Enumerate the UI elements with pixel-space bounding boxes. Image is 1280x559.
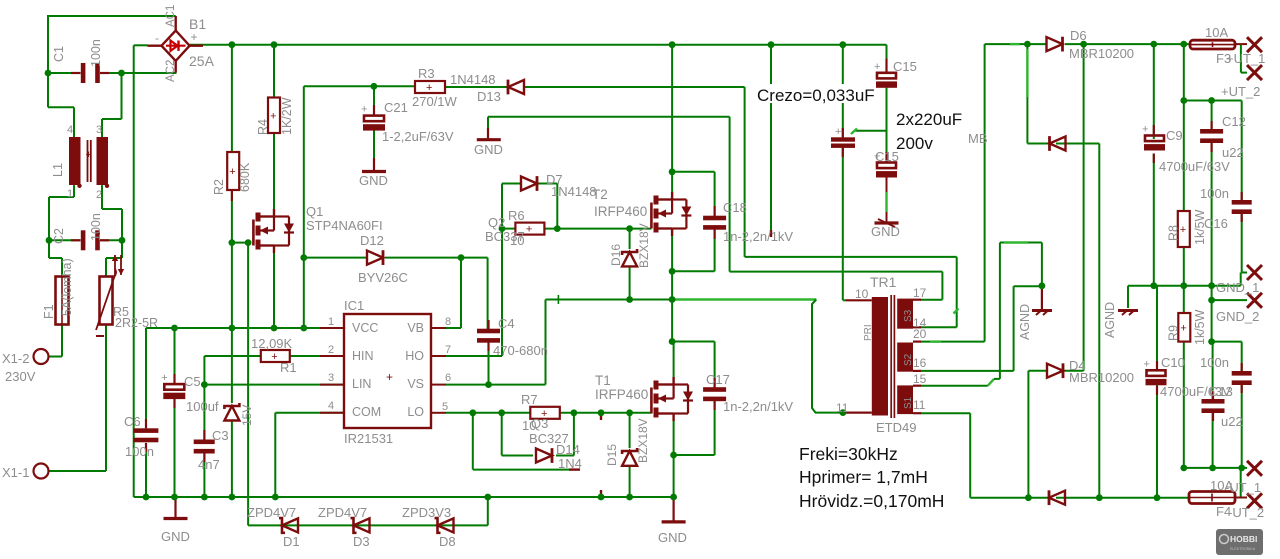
svg-text:+: + <box>1144 358 1150 370</box>
svg-text:S2: S2 <box>903 353 914 366</box>
svg-text:VCC: VCC <box>352 321 378 335</box>
svg-text:BZX18V: BZX18V <box>637 223 651 268</box>
svg-text:10: 10 <box>855 287 869 301</box>
svg-text:+: + <box>229 166 235 178</box>
svg-text:2: 2 <box>96 189 102 201</box>
svg-text:IR21531: IR21531 <box>344 431 393 446</box>
svg-text:Q1: Q1 <box>306 204 323 219</box>
svg-text:ZPD4V7: ZPD4V7 <box>247 505 296 520</box>
svg-text:R6: R6 <box>508 208 525 223</box>
svg-text:+: + <box>270 110 276 122</box>
svg-text:HO: HO <box>405 349 424 363</box>
svg-text:+: + <box>426 82 432 94</box>
svg-text:4n7: 4n7 <box>198 457 220 472</box>
svg-text:100n: 100n <box>1200 355 1229 370</box>
svg-text:+: + <box>1142 124 1148 136</box>
svg-text:2R2-5R: 2R2-5R <box>115 316 158 330</box>
svg-text:+: + <box>361 104 367 116</box>
svg-text:MB: MB <box>968 131 988 146</box>
svg-text:F1: F1 <box>42 304 56 319</box>
svg-text:-UT_1: -UT_1 <box>1225 480 1261 495</box>
svg-text:R4: R4 <box>256 119 270 135</box>
svg-text:D16: D16 <box>609 244 623 266</box>
svg-text:GND: GND <box>871 224 900 239</box>
svg-text:Crezo=0,033uF: Crezo=0,033uF <box>757 86 875 105</box>
svg-text:C15: C15 <box>893 59 917 74</box>
svg-text:+: + <box>271 351 277 363</box>
svg-text:100n: 100n <box>125 444 154 459</box>
svg-text:+: + <box>526 224 532 236</box>
svg-text:GND_2: GND_2 <box>1216 309 1259 324</box>
svg-text:1N4148: 1N4148 <box>551 184 597 199</box>
svg-text:15V: 15V <box>240 405 254 426</box>
svg-text:R3: R3 <box>418 66 435 81</box>
svg-text:4: 4 <box>328 400 334 412</box>
svg-text:1N4148: 1N4148 <box>450 72 496 87</box>
svg-text:680K: 680K <box>238 162 252 192</box>
svg-text:ZPD4V7: ZPD4V7 <box>318 505 367 520</box>
svg-text:C2: C2 <box>52 228 66 244</box>
svg-text:C3: C3 <box>212 428 229 443</box>
svg-text:D8: D8 <box>439 534 456 549</box>
svg-text:MBR10200: MBR10200 <box>1069 46 1134 61</box>
svg-text:BZX18V: BZX18V <box>636 418 650 463</box>
svg-text:Q3: Q3 <box>531 416 548 431</box>
svg-text:ZPD3V3: ZPD3V3 <box>402 505 451 520</box>
svg-text:TR1: TR1 <box>870 274 897 290</box>
svg-text:L1: L1 <box>51 163 65 177</box>
svg-text:Q2: Q2 <box>488 215 505 230</box>
svg-text:IRFP460: IRFP460 <box>595 387 648 402</box>
svg-text:4700uF/63V: 4700uF/63V <box>1159 159 1230 174</box>
svg-text:2: 2 <box>328 344 334 356</box>
svg-text:AGND: AGND <box>1018 304 1032 340</box>
svg-text:PRI: PRI <box>863 324 874 341</box>
svg-text:270/1W: 270/1W <box>412 94 458 109</box>
svg-text:100n: 100n <box>1200 186 1229 201</box>
svg-text:+: + <box>1180 224 1186 236</box>
svg-text:+: + <box>1180 322 1186 334</box>
svg-text:R8: R8 <box>1167 225 1181 241</box>
svg-text:Hprimer= 1,7mH: Hprimer= 1,7mH <box>799 467 928 487</box>
svg-text:C6: C6 <box>124 414 141 429</box>
svg-text:12,09K: 12,09K <box>251 336 293 351</box>
svg-text:GND: GND <box>161 529 190 544</box>
svg-text:LIN: LIN <box>352 377 371 391</box>
svg-text:T1: T1 <box>595 373 611 388</box>
svg-text:+UT_2: +UT_2 <box>1221 84 1260 99</box>
svg-text:D6: D6 <box>1070 28 1087 43</box>
svg-text:-UT_2: -UT_2 <box>1228 505 1264 520</box>
svg-text:MBR10200: MBR10200 <box>1069 370 1134 385</box>
svg-text:X1-1: X1-1 <box>2 465 29 480</box>
svg-text:AGND: AGND <box>1103 302 1117 338</box>
svg-text:GND: GND <box>474 142 503 157</box>
svg-text:u22: u22 <box>1222 145 1244 160</box>
svg-text:17: 17 <box>913 286 927 300</box>
svg-text:D13: D13 <box>477 89 501 104</box>
svg-text:100n: 100n <box>89 213 103 241</box>
svg-text:20: 20 <box>913 327 927 341</box>
svg-text:D12: D12 <box>360 233 384 248</box>
svg-text:1-2,2uF/63V: 1-2,2uF/63V <box>382 129 454 144</box>
svg-text:D3: D3 <box>353 534 370 549</box>
svg-text:C17: C17 <box>706 372 730 387</box>
svg-text:u22: u22 <box>1221 414 1243 429</box>
svg-text:COM: COM <box>352 405 381 419</box>
svg-text:5A(lomha): 5A(lomha) <box>60 258 74 316</box>
svg-text:C9: C9 <box>1166 128 1183 143</box>
svg-text:10: 10 <box>510 233 524 248</box>
svg-text:X1-2: X1-2 <box>2 351 29 366</box>
svg-text:S3: S3 <box>903 309 914 322</box>
svg-text:GND: GND <box>658 530 687 545</box>
svg-text:100n: 100n <box>89 39 103 67</box>
svg-text:C16: C16 <box>1204 216 1228 231</box>
svg-text:T2: T2 <box>592 187 608 202</box>
svg-text:AC1: AC1 <box>165 5 177 27</box>
svg-text:C12: C12 <box>1222 114 1246 129</box>
svg-text:-: - <box>155 31 159 45</box>
svg-text:16: 16 <box>913 356 927 370</box>
svg-text:IC1: IC1 <box>344 298 364 313</box>
svg-text:3: 3 <box>96 124 102 136</box>
svg-text:8: 8 <box>445 316 451 328</box>
svg-text:GND: GND <box>359 173 388 188</box>
svg-text:200v: 200v <box>896 134 933 153</box>
svg-text:R9: R9 <box>1167 325 1181 341</box>
svg-text:GND_1: GND_1 <box>1216 280 1259 295</box>
svg-text:3: 3 <box>328 372 334 384</box>
svg-text:R2: R2 <box>212 179 226 195</box>
svg-text:4: 4 <box>67 124 73 136</box>
svg-text:230V: 230V <box>5 369 36 384</box>
svg-text:1: 1 <box>328 316 334 328</box>
svg-text:C10: C10 <box>1161 355 1185 370</box>
svg-text:HOBBI: HOBBI <box>1230 534 1257 544</box>
svg-text:1k/5W: 1k/5W <box>1193 309 1207 345</box>
svg-text:11: 11 <box>836 401 849 415</box>
svg-text:470-680n: 470-680n <box>493 343 548 358</box>
svg-text:10A: 10A <box>1205 25 1228 40</box>
svg-text:15: 15 <box>913 372 927 386</box>
svg-text:Hrövidz.=0,170mH: Hrövidz.=0,170mH <box>799 491 944 511</box>
svg-text:100uf: 100uf <box>186 399 219 414</box>
svg-text:+: + <box>86 149 92 161</box>
svg-text:1: 1 <box>67 188 73 200</box>
svg-text:25A: 25A <box>189 53 215 69</box>
svg-text:BYV26C: BYV26C <box>358 270 408 285</box>
svg-text:C5: C5 <box>184 374 201 389</box>
svg-text:2x220uF: 2x220uF <box>896 110 962 129</box>
svg-text:VS: VS <box>407 377 424 391</box>
svg-text:C21: C21 <box>384 100 408 115</box>
svg-text:+: + <box>386 370 393 384</box>
svg-text:5: 5 <box>442 401 448 413</box>
svg-text:ELEKTRONIKA: ELEKTRONIKA <box>1230 547 1256 551</box>
svg-text:C1: C1 <box>52 46 66 62</box>
svg-text:S1: S1 <box>903 396 914 409</box>
svg-text:11: 11 <box>913 398 926 412</box>
svg-text:C4: C4 <box>498 316 515 331</box>
svg-text:6: 6 <box>445 372 451 384</box>
svg-text:VB: VB <box>407 321 424 335</box>
svg-text:STP4NA60FI: STP4NA60FI <box>306 218 383 233</box>
svg-text:D1: D1 <box>283 534 300 549</box>
svg-text:C18: C18 <box>723 200 747 215</box>
svg-text:HIN: HIN <box>352 349 374 363</box>
svg-text:1K/2W: 1K/2W <box>280 97 294 135</box>
svg-text:+: + <box>161 372 167 384</box>
svg-text:R7: R7 <box>521 392 538 407</box>
svg-text:B1: B1 <box>189 16 206 32</box>
svg-text:+: + <box>191 30 198 44</box>
svg-text:1n-2,2n/1kV: 1n-2,2n/1kV <box>723 229 793 244</box>
svg-text:1k/5W: 1k/5W <box>1193 209 1207 245</box>
svg-text:D15: D15 <box>605 444 619 466</box>
svg-text:+: + <box>835 126 841 138</box>
svg-text:AC2: AC2 <box>165 60 177 82</box>
svg-text:C13: C13 <box>1209 384 1233 399</box>
svg-text:1N4: 1N4 <box>558 456 582 471</box>
svg-text:1n-2,2n/1kV: 1n-2,2n/1kV <box>723 399 793 414</box>
svg-text:+: + <box>874 61 880 73</box>
svg-text:7: 7 <box>445 344 451 356</box>
svg-text:LO: LO <box>407 405 424 419</box>
svg-text:ETD49: ETD49 <box>876 420 916 435</box>
svg-text:+UT_1: +UT_1 <box>1226 51 1265 66</box>
svg-text:D14: D14 <box>556 442 580 457</box>
svg-text:Freki=30kHz: Freki=30kHz <box>799 444 898 464</box>
svg-text:IRFP460: IRFP460 <box>594 204 647 219</box>
svg-text:R1: R1 <box>280 360 297 375</box>
